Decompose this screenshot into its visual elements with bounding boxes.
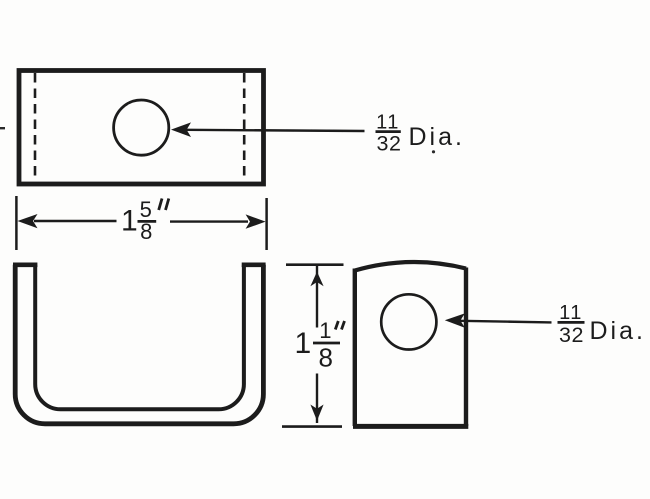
vertical dim line lower — [316, 374, 318, 424]
svg-text:11: 11 — [559, 302, 583, 324]
scan mark left margin — [0, 127, 5, 129]
vdim fraction bar — [313, 342, 340, 345]
svg-text:8: 8 — [140, 219, 152, 244]
dimension line left segment — [34, 220, 117, 222]
svg-text:1: 1 — [319, 318, 331, 343]
side view bottom edge — [353, 424, 468, 429]
side view right edge — [464, 268, 468, 427]
hidden line left — [34, 73, 37, 181]
leader line top — [186, 130, 365, 131]
dimension arrowhead right — [246, 214, 266, 228]
fraction bar 5/8 — [138, 220, 157, 223]
svg-text:1: 1 — [295, 327, 312, 360]
extension line left — [15, 196, 18, 250]
svg-text:1: 1 — [121, 205, 138, 238]
svg-text:8: 8 — [318, 343, 332, 373]
vertical dim top extension — [286, 263, 344, 266]
front view inner contour — [35, 265, 244, 410]
vertical dim arrow up — [310, 272, 323, 287]
hole side view — [381, 294, 436, 349]
svg-text:32: 32 — [377, 132, 402, 156]
svg-text:Dia.: Dia. — [590, 317, 646, 345]
front view right arm cap — [242, 262, 266, 267]
fraction bar side label — [558, 321, 585, 324]
inch marks top dim — [159, 199, 169, 211]
scan speck under i of Dia. — [432, 150, 435, 153]
svg-text:Dia.: Dia. — [409, 123, 465, 151]
leader arrowhead top — [171, 122, 191, 137]
leader arrowhead side — [445, 313, 465, 327]
svg-text:32: 32 — [559, 323, 584, 347]
vdim inch marks — [335, 321, 344, 330]
dimension arrowhead left — [18, 214, 38, 228]
hole top view — [114, 100, 169, 155]
top view outline — [19, 71, 264, 185]
vertical dim arrow down — [310, 405, 323, 421]
vertical dim line upper — [316, 265, 318, 328]
extension line right — [265, 198, 268, 250]
front view left arm cap — [13, 262, 37, 267]
hidden line right — [243, 73, 246, 181]
leader line side — [460, 321, 552, 323]
front view outer contour — [15, 265, 263, 424]
fraction bar top label — [376, 130, 401, 133]
side view top arc — [355, 262, 466, 271]
vertical dim bottom extension — [282, 425, 342, 428]
dimension line right segment — [170, 220, 248, 222]
side view left edge — [353, 269, 357, 427]
